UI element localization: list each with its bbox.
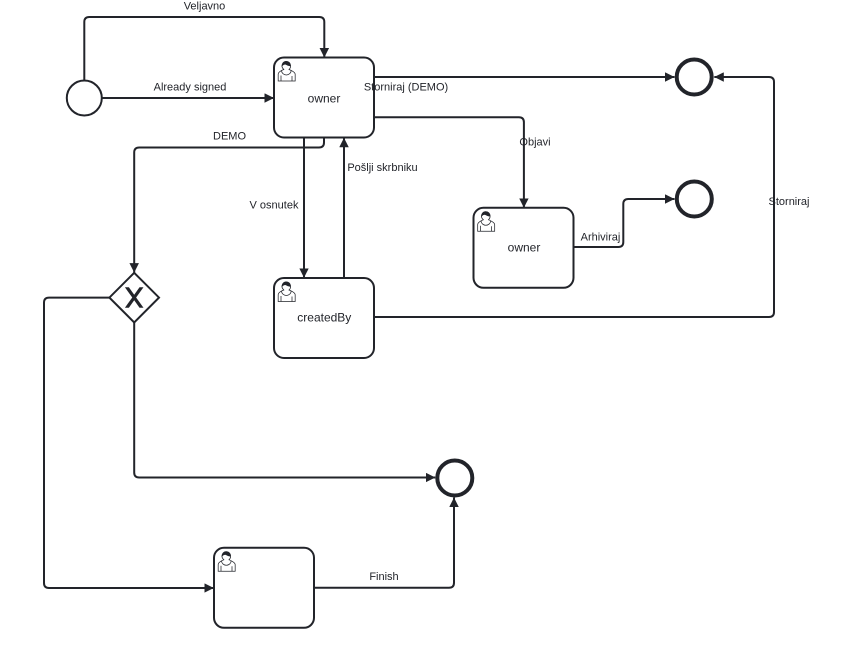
svg-text:Pošlji skrbniku: Pošlji skrbniku <box>347 162 417 174</box>
svg-text:Arhiviraj: Arhiviraj <box>581 232 621 244</box>
svg-text:Finish: Finish <box>369 571 398 583</box>
svg-text:V osnutek: V osnutek <box>250 200 299 212</box>
svg-text:Veljavno: Veljavno <box>184 1 226 13</box>
svg-text:Objavi: Objavi <box>519 137 550 149</box>
svg-text:Storniraj: Storniraj <box>769 196 810 208</box>
svg-text:DEMO: DEMO <box>213 131 246 143</box>
svg-text:owner: owner <box>508 241 541 255</box>
svg-text:createdBy: createdBy <box>297 310 351 324</box>
svg-text:owner: owner <box>308 91 341 105</box>
svg-text:Storniraj (DEMO): Storniraj (DEMO) <box>364 82 448 94</box>
svg-text:Already signed: Already signed <box>154 82 227 94</box>
